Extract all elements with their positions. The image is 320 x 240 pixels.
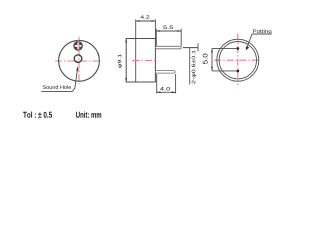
top pin <box>155 46 181 49</box>
dimension 5.0 extension lines <box>212 47 236 49</box>
Potting underline <box>252 33 272 35</box>
dimension 9.1 arrows on body left edge <box>125 39 127 82</box>
dimension 4.2 extension lines <box>135 19 137 38</box>
label "Sound Hole" <box>43 85 71 89</box>
dimension 5.0 line <box>211 48 213 71</box>
callout text 2-(phi)0.6+-0.1 rotated <box>192 50 197 83</box>
dimension 5.5 extension lines <box>155 29 157 46</box>
dimension text 4.2 <box>141 15 150 18</box>
bottom pin <box>155 71 175 74</box>
tolerance note <box>23 111 52 117</box>
label "Potting" <box>253 29 271 34</box>
outer case circle <box>217 39 259 81</box>
sound hole center-mark symbol (quadrant circle) <box>73 41 83 52</box>
inner potting circle <box>219 42 256 79</box>
body step line <box>135 39 137 83</box>
dimension 4.2 line <box>136 20 156 22</box>
Potting leader arrowhead <box>246 46 250 50</box>
unit note <box>76 111 101 117</box>
horizontal centerline (side view, red dash-dot) <box>132 59 157 61</box>
leader arrowhead pointing up at sound hole <box>76 66 78 71</box>
dimension 4.0 extension lines <box>156 74 158 93</box>
Potting leader line <box>247 34 252 48</box>
dimension 4.0 line <box>157 91 176 93</box>
dimension text (phi)9.1 rotated <box>118 54 123 68</box>
dimension text 4.0 <box>160 87 170 91</box>
small open circle at center (sound hole) <box>74 55 82 63</box>
dimension text 5.5 <box>163 26 173 29</box>
vertical centerline (right view, red dash-dot) <box>237 34 239 86</box>
horizontal centerline (right view, red dash-dot) <box>214 59 260 61</box>
pin diameter callout leader <box>183 47 198 49</box>
dimension text 5.0 rotated <box>203 54 208 64</box>
buzzer case outline circle (left view) <box>59 40 100 81</box>
leader line from Sound Hole label <box>41 70 77 91</box>
horizontal centerline (left view, red dash-dot) <box>55 60 102 62</box>
buzzer body rectangle <box>126 39 155 83</box>
bottom pin dot <box>236 70 239 73</box>
top pin dot <box>236 47 239 50</box>
dimension 5.5 line <box>156 30 181 32</box>
vertical centerline (left view, red dash-dot) <box>78 37 80 85</box>
